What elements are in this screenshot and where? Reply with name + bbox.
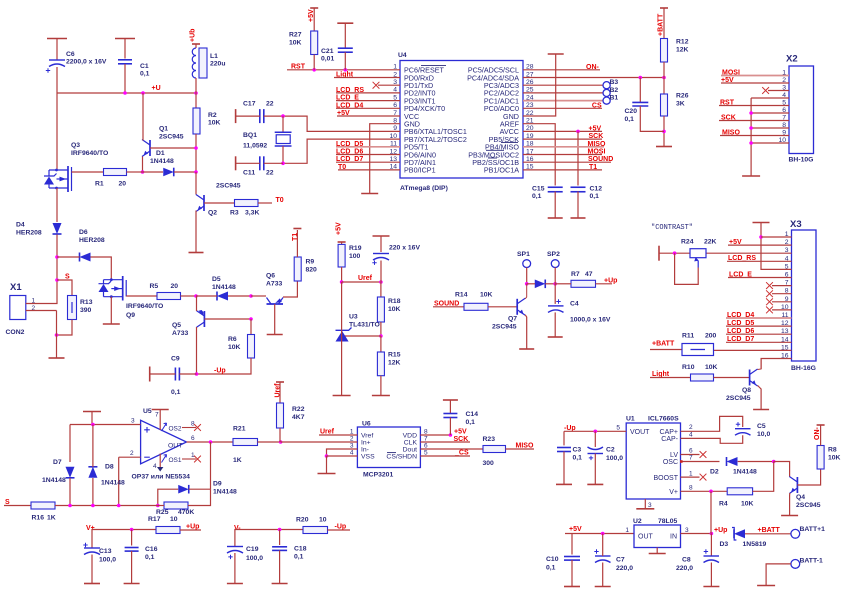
zener U3 TL431 xyxy=(336,314,380,342)
wire C21 top xyxy=(344,23,346,48)
wire left column to D4 xyxy=(56,188,58,222)
svg-text:R9: R9 xyxy=(306,259,315,266)
wire U3 column through xyxy=(341,282,343,395)
junction SP1 node xyxy=(525,282,529,286)
wire R24 left xyxy=(659,252,690,254)
ground Q8 xyxy=(753,409,769,411)
diode D1 xyxy=(150,150,174,176)
svg-text:R5: R5 xyxy=(150,283,159,290)
ground C13 xyxy=(84,583,100,585)
svg-text:V+: V+ xyxy=(669,489,678,496)
resistor R8 xyxy=(817,446,840,470)
wire +Up column up xyxy=(710,491,712,533)
junction D9 R25 left xyxy=(156,504,160,508)
svg-text:4: 4 xyxy=(153,463,157,470)
svg-text:PB0/ICP1: PB0/ICP1 xyxy=(404,166,436,175)
wire D6 cathode left xyxy=(57,256,80,258)
capacitor C5 xyxy=(735,422,770,438)
wire R7 left xyxy=(555,283,571,285)
capacitor 220 x 16V xyxy=(372,245,420,265)
svg-text:Q7: Q7 xyxy=(508,316,517,323)
wire D2 right xyxy=(738,461,774,463)
svg-text:IN: IN xyxy=(670,534,677,541)
svg-text:MISO: MISO xyxy=(516,443,534,450)
svg-text:C11: C11 xyxy=(243,170,255,177)
speaker terminal SP2 xyxy=(547,251,560,268)
svg-text:1: 1 xyxy=(689,470,693,477)
wire RST pin1 xyxy=(287,69,400,71)
no-connect X2 pin3 xyxy=(762,87,769,94)
resistor R9 xyxy=(294,257,317,281)
junction S row D7 xyxy=(68,504,72,508)
svg-text:C17: C17 xyxy=(243,101,256,108)
wire X3 pin8 stub xyxy=(772,293,792,295)
net +BATT vertical xyxy=(658,8,668,36)
svg-text:2: 2 xyxy=(689,424,693,431)
wire L1 to +U rail xyxy=(195,78,197,93)
resistor R23 xyxy=(483,436,506,467)
wire R10 to Q8 xyxy=(714,377,750,379)
wire X2 pin4 xyxy=(751,97,789,99)
wire pin21 AREF to C15 xyxy=(523,124,555,186)
wire X2 pin7 xyxy=(719,120,789,122)
junction S row pin2 xyxy=(117,504,121,508)
wire pin12 LCD_D6 xyxy=(336,154,400,156)
svg-text:R17: R17 xyxy=(148,516,161,523)
junction X3 pin1 xyxy=(759,235,763,239)
capacitor C10 xyxy=(546,556,580,572)
svg-text:0,1: 0,1 xyxy=(625,116,635,123)
svg-text:D7: D7 xyxy=(53,459,62,466)
svg-text:1N4148: 1N4148 xyxy=(212,284,236,291)
transistor Q9 IRF9640 xyxy=(99,276,164,319)
connector X1 xyxy=(6,282,36,336)
ground U3 xyxy=(333,395,351,397)
wire U5 pin2 xyxy=(119,456,141,458)
net Uref vertical label xyxy=(275,382,285,398)
svg-text:3,3K: 3,3K xyxy=(245,210,259,217)
wire cap 220 top xyxy=(380,236,382,252)
transistor Q2 xyxy=(196,183,241,217)
wire Uref to R22 xyxy=(279,382,281,403)
wire R15 bottom xyxy=(380,376,382,395)
wire U6 pin7 CLK xyxy=(420,441,470,443)
wire Q5 emitter up xyxy=(196,296,198,311)
svg-text:R6: R6 xyxy=(228,336,237,343)
svg-text:HER208: HER208 xyxy=(79,237,105,244)
X3 ground bus xyxy=(761,223,792,270)
wire Q6 emitter to R9 xyxy=(283,281,297,297)
rail terminal C14 xyxy=(443,399,458,401)
svg-text:Uref: Uref xyxy=(358,275,373,282)
svg-text:D8: D8 xyxy=(105,464,114,471)
wire R26 bottom xyxy=(663,116,665,146)
ground BATT-1 xyxy=(757,585,775,587)
svg-text:+Up: +Up xyxy=(604,277,617,284)
svg-text:R23: R23 xyxy=(483,436,496,443)
rail terminal C21 xyxy=(337,22,353,24)
U5 pin7 stub xyxy=(152,410,169,431)
connector X2 xyxy=(778,54,813,164)
svg-text:R16: R16 xyxy=(32,515,45,522)
wire C16 bottom xyxy=(131,551,133,583)
junction crystal top xyxy=(281,114,285,118)
wire C1 bottom xyxy=(124,64,126,93)
svg-text:OUT: OUT xyxy=(168,443,182,450)
wire U6 pin3 xyxy=(327,449,358,456)
svg-text:VOUT: VOUT xyxy=(630,429,650,436)
svg-text:In+: In+ xyxy=(361,440,371,447)
wire X2 pin8 xyxy=(751,127,789,129)
wire Q1 collector xyxy=(142,93,144,141)
svg-text:ON-: ON- xyxy=(814,427,821,441)
svg-text:D4: D4 xyxy=(16,222,25,229)
wire U5 pin3 xyxy=(70,424,141,426)
svg-text:C3: C3 xyxy=(573,447,582,454)
svg-text:D6: D6 xyxy=(79,229,88,236)
svg-text:0,1: 0,1 xyxy=(294,554,304,561)
junction Uref right xyxy=(379,280,383,284)
svg-text:78L05: 78L05 xyxy=(658,518,677,525)
svg-text:A733: A733 xyxy=(266,281,282,288)
resistor R1 xyxy=(95,169,127,188)
capacitor C17 xyxy=(243,101,274,124)
wire +U to R2 xyxy=(195,93,197,108)
svg-text:100,0: 100,0 xyxy=(606,455,623,462)
resistor R12 xyxy=(661,39,689,63)
wire +5V to R19 xyxy=(341,242,343,244)
svg-text:C7: C7 xyxy=(616,557,625,564)
net ON- vertical label xyxy=(814,425,825,440)
+U rail wire xyxy=(57,92,196,94)
svg-text:C6: C6 xyxy=(66,51,75,58)
capacitor C7 xyxy=(594,549,633,572)
V- rail wire xyxy=(235,530,303,547)
resistor R2 xyxy=(193,108,221,134)
wire C4 top xyxy=(554,284,556,304)
svg-text:2200,0 x 16V: 2200,0 x 16V xyxy=(66,59,107,66)
wire R3 to T0 xyxy=(258,202,272,204)
potentiometer R24 xyxy=(681,239,717,268)
rail terminal above pin3 node xyxy=(83,412,101,425)
capacitor C18 xyxy=(272,546,307,561)
wire pin16 SOUND xyxy=(523,161,611,163)
speaker terminal SP1 xyxy=(517,251,531,268)
resistor R15 xyxy=(377,352,400,376)
capacitor C6 xyxy=(46,51,107,73)
junction C18 top xyxy=(278,528,282,532)
wire X3 pin9 stub xyxy=(772,301,792,303)
wire pin26 to B3 xyxy=(523,84,603,86)
ground U4 pin8 xyxy=(361,193,378,195)
svg-text:-Up: -Up xyxy=(214,368,226,375)
junction R26 C20 bottom xyxy=(662,130,666,134)
svg-text:BATT-1: BATT-1 xyxy=(800,558,824,565)
svg-text:OP37 или NE5534: OP37 или NE5534 xyxy=(132,474,191,481)
svg-text:1K: 1K xyxy=(47,515,56,522)
junction D1 row Q1 xyxy=(141,170,145,174)
svg-text:390: 390 xyxy=(80,307,92,314)
junction R24 wiper loop xyxy=(673,251,677,255)
wire U6 pin8 VDD xyxy=(420,434,450,436)
wire pin28 ON- xyxy=(523,69,600,71)
svg-text:0,1: 0,1 xyxy=(466,419,476,426)
wire R1 to D1 node xyxy=(127,171,143,173)
wire C6 bottom to +U rail xyxy=(56,67,58,93)
svg-text:10: 10 xyxy=(170,516,178,523)
svg-text:U2: U2 xyxy=(633,518,642,525)
svg-text:CON2: CON2 xyxy=(6,329,25,336)
wire C7 bottom xyxy=(602,563,604,587)
wire X2 pin9 xyxy=(720,135,789,137)
svg-text:+5V: +5V xyxy=(454,429,467,436)
svg-text:R8: R8 xyxy=(828,447,837,454)
rail terminal C9 xyxy=(149,367,151,382)
wire C17 right xyxy=(264,115,283,117)
wire pin7 +5V xyxy=(337,115,400,117)
wire Q6 base to ground xyxy=(274,304,276,334)
wire X3 pin3 from R24 xyxy=(706,252,792,254)
svg-text:Dout: Dout xyxy=(403,447,417,454)
terminal BATT-1 xyxy=(791,558,823,569)
wire cap 220 bottom xyxy=(380,261,382,283)
diode D6 HER208 xyxy=(79,229,105,262)
wire R6 bottom xyxy=(197,358,252,374)
inductor L1 xyxy=(192,48,225,78)
svg-text:20: 20 xyxy=(171,283,179,290)
svg-text:Q3: Q3 xyxy=(71,142,80,149)
diode D7 xyxy=(42,459,75,484)
resistor R20 xyxy=(296,517,328,534)
wire X3 pin1 xyxy=(761,236,792,238)
rail terminal above C1 xyxy=(115,38,135,40)
wire X3 pin13 xyxy=(726,333,792,335)
jumper pad B1 xyxy=(603,95,618,105)
wire D8 bottom xyxy=(92,478,94,506)
junction +5V C14 xyxy=(449,433,453,437)
wire X3 pin11 xyxy=(726,317,792,319)
ground R26 xyxy=(656,146,672,148)
ground-up terminal X3 xyxy=(753,222,770,224)
wire C8 top xyxy=(710,534,712,557)
wire Q9 source to ground xyxy=(110,297,112,324)
svg-text:Q6: Q6 xyxy=(266,273,275,280)
capacitor C9 xyxy=(171,356,181,397)
resistor R3 xyxy=(230,200,259,217)
wire R25 right xyxy=(188,489,211,505)
resistor R7 xyxy=(571,271,596,287)
jumper pad B3 xyxy=(603,79,618,89)
svg-text:1: 1 xyxy=(625,527,629,534)
svg-text:C13: C13 xyxy=(99,548,112,555)
wire R19 to Uref row xyxy=(341,267,343,282)
svg-text:OS1: OS1 xyxy=(169,457,182,464)
wire X3 pin15 from R11 xyxy=(714,349,792,351)
U5 OS1 pin1 xyxy=(162,452,201,464)
junction R18 R15 U3 xyxy=(379,334,383,338)
svg-text:220 x 16V: 220 x 16V xyxy=(389,245,420,252)
svg-text:C14: C14 xyxy=(466,411,479,418)
wire Q7 collector xyxy=(525,284,527,299)
diode D8 xyxy=(88,464,125,487)
wire node to Q6 collector xyxy=(251,295,266,297)
svg-text:L1: L1 xyxy=(210,53,218,60)
svg-text:R2: R2 xyxy=(208,112,217,119)
svg-text:C20: C20 xyxy=(625,108,638,115)
svg-text:2SC945: 2SC945 xyxy=(796,502,821,509)
wire C18 top xyxy=(279,530,281,546)
wire C11 right xyxy=(264,162,283,164)
wire D1 node to Q2 collector xyxy=(195,172,197,195)
svg-text:CAP-: CAP- xyxy=(661,436,678,443)
svg-text:0,1: 0,1 xyxy=(546,565,556,572)
resistor R13 xyxy=(68,296,93,320)
svg-text:3: 3 xyxy=(648,502,652,509)
wire X1 pin2 down xyxy=(56,311,58,336)
U2 ground stub xyxy=(649,548,666,554)
resistor R17 xyxy=(148,516,180,534)
wire Q3 gate to R1 xyxy=(72,171,104,173)
svg-text:HER208: HER208 xyxy=(16,230,42,237)
ground C10 xyxy=(564,586,580,588)
svg-text:+U: +U xyxy=(152,85,161,92)
diode D2 xyxy=(710,457,757,476)
svg-text:C9: C9 xyxy=(171,356,180,363)
wire R7 right to +Up xyxy=(596,283,613,285)
svg-text:ATmega8 (DIP): ATmega8 (DIP) xyxy=(400,185,448,192)
wire Q1 base xyxy=(150,147,196,149)
svg-text:T1: T1 xyxy=(292,233,299,241)
svg-text:C1: C1 xyxy=(140,63,149,70)
wire U6 pin2 xyxy=(281,441,358,443)
wire R21 right xyxy=(258,441,281,443)
svg-text:2SC945: 2SC945 xyxy=(726,395,751,402)
IC U4 ATmega8 body xyxy=(389,52,533,192)
wire R2 to D1 node xyxy=(195,134,197,172)
svg-text:+Up: +Up xyxy=(714,527,727,534)
ground C3 xyxy=(556,483,572,485)
junction C7 top xyxy=(601,532,605,536)
junction X2 pin10 xyxy=(749,141,753,145)
wire C9 right xyxy=(179,373,196,375)
wire D7 bottom xyxy=(69,478,71,506)
svg-text:U5: U5 xyxy=(143,408,152,415)
net +5V vertical R27 xyxy=(308,8,318,22)
svg-text:D9: D9 xyxy=(213,481,222,488)
svg-text:MCP3201: MCP3201 xyxy=(363,472,393,479)
wire +5V row xyxy=(565,533,634,535)
junction crystal bottom xyxy=(281,162,285,166)
svg-text:Q1: Q1 xyxy=(159,126,168,133)
wire C15 bottom xyxy=(554,192,556,218)
svg-text:+5V: +5V xyxy=(336,222,343,235)
wire X2 pin10 xyxy=(751,142,789,144)
wire U3 row xyxy=(344,335,381,337)
X2 ground bus xyxy=(750,98,752,176)
resistor R19 xyxy=(338,244,362,267)
svg-text:Q4: Q4 xyxy=(796,494,805,501)
svg-text:LV: LV xyxy=(670,452,678,459)
crystal BQ1 xyxy=(243,132,292,150)
svg-text:R20: R20 xyxy=(296,517,309,524)
wire C7 top xyxy=(602,534,604,557)
wire C13 bottom xyxy=(91,555,93,584)
svg-text:10K: 10K xyxy=(208,120,221,127)
svg-text:R11: R11 xyxy=(682,333,694,340)
wire SP2 down xyxy=(554,268,556,284)
net +5V label vertical (R19) xyxy=(336,222,346,242)
svg-text:Q9: Q9 xyxy=(126,312,135,319)
svg-text:11,0592: 11,0592 xyxy=(243,143,267,150)
svg-text:C8: C8 xyxy=(682,557,691,564)
wire +BATT to R12 xyxy=(663,8,665,39)
diode D3 1N5819 xyxy=(720,528,767,549)
svg-text:R25: R25 xyxy=(156,509,169,516)
wire X3 pin4 xyxy=(727,260,792,262)
U5 pin4 stub xyxy=(153,454,163,472)
svg-text:BQ1: BQ1 xyxy=(243,132,257,139)
wire C3 column xyxy=(563,431,565,445)
wire pin14 T0 xyxy=(338,169,400,171)
capacitor C20 xyxy=(625,102,649,123)
wire Q4 collector path xyxy=(774,462,790,477)
ground C16 xyxy=(124,583,140,585)
junction S row D8 xyxy=(91,504,95,508)
resistor R26 xyxy=(661,93,689,117)
wire Uref down to R18 xyxy=(380,282,382,297)
svg-text:2: 2 xyxy=(130,450,134,457)
ground C2 xyxy=(587,483,603,485)
wire X2 pin1 xyxy=(721,75,789,77)
wire X3 pin16 to Q8 xyxy=(761,359,791,370)
diode D5 xyxy=(212,276,236,301)
svg-text:0,1: 0,1 xyxy=(145,554,155,561)
capacitor C8 xyxy=(676,549,719,572)
svg-text:1K: 1K xyxy=(233,457,242,464)
junction C2 top xyxy=(594,430,598,434)
junction RST C21 xyxy=(344,68,348,72)
svg-text:0,1: 0,1 xyxy=(140,71,150,78)
svg-text:100,0: 100,0 xyxy=(99,557,116,564)
wire U2 pin3 xyxy=(681,533,712,535)
svg-text:B1: B1 xyxy=(610,95,619,102)
wire S to R13 xyxy=(57,280,72,296)
no-connect X3 pin8 xyxy=(766,290,773,297)
wire pin6 LCD_D4 xyxy=(336,107,400,109)
wire C12 bottom xyxy=(577,192,579,218)
svg-text:T0: T0 xyxy=(276,197,284,204)
junction X2 pin6 xyxy=(749,111,753,115)
svg-text:"CONTRAST": "CONTRAST" xyxy=(651,224,693,232)
wire C18 bottom xyxy=(279,551,281,584)
ground C7 xyxy=(595,586,611,588)
wire pin10 XTAL2 xyxy=(283,139,400,163)
wire X3 pin6 xyxy=(728,277,792,279)
junction D5 Q6 node xyxy=(249,294,253,298)
svg-text:0,01: 0,01 xyxy=(321,56,334,63)
ground Q2 xyxy=(189,252,204,254)
wire R22 bottom xyxy=(279,428,281,442)
svg-text:20: 20 xyxy=(119,181,127,188)
wire D1 anode xyxy=(143,171,164,173)
ground C8 xyxy=(703,586,719,588)
wire X2 pin6 xyxy=(751,112,789,114)
wire D1 cathode xyxy=(174,171,196,173)
wire R25 left xyxy=(158,505,164,507)
resistor R14 xyxy=(455,292,493,311)
no-connect X3 pin7 xyxy=(766,282,773,289)
wire pin4 LCD_RS xyxy=(336,92,400,94)
